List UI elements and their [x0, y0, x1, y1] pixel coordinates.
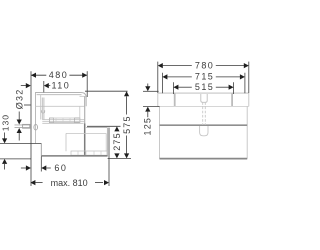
svg-text:480: 480 — [49, 70, 68, 80]
svg-text:715: 715 — [195, 72, 214, 82]
side view: pipe rosette ellipse — [34, 124, 38, 130]
dimension Ø32 leader line — [24, 104, 31, 106]
svg-text:Ø32: Ø32 — [15, 89, 25, 110]
dimension 715 right arrow — [216, 73, 245, 94]
front view: left hanger bracket — [174, 94, 176, 106]
side view: waste pipe wall flange — [23, 124, 30, 128]
dimension 780 left arrow — [158, 62, 192, 93]
dimension 515 left arrow — [173, 82, 191, 94]
front view: basin slab side edges — [158, 93, 249, 106]
side view: basin slab outline — [36, 93, 87, 125]
dimension: wall extension vertical line — [30, 71, 32, 186]
dimension max.810 right extension line — [108, 128, 110, 187]
dimension 60 left outside arrow — [21, 165, 31, 170]
dimension 575 lower arrow — [124, 136, 129, 159]
dimension 480 right arrow — [82, 73, 87, 78]
dimension 110 extension line — [43, 81, 45, 92]
dimension 125 top extension line — [143, 90, 159, 92]
dimension 575 upper arrow — [124, 91, 129, 114]
svg-text:515: 515 — [195, 82, 214, 92]
side view: cabinet front panel — [84, 96, 86, 124]
dimension max.810 right arrow — [95, 180, 109, 185]
side view: lower drawer slide strip — [71, 151, 107, 155]
side view: inner front line — [79, 106, 81, 122]
side view: cabinet top front line — [80, 95, 85, 97]
dimension Ø32 lower arrow — [17, 128, 22, 141]
dimension 480 right extension line — [86, 71, 88, 97]
side view: upper drawer bottom lines — [42, 120, 84, 122]
dimension 125 bottom extension line — [143, 106, 160, 108]
svg-text:110: 110 — [52, 81, 71, 91]
dimension 125 lower arrow — [145, 107, 150, 118]
side view: lower drawer back wall — [65, 133, 67, 151]
side view: cabinet bottom panel — [41, 155, 108, 157]
front view: cabinet bottom line — [160, 158, 248, 160]
dimension 715 left arrow — [162, 73, 191, 94]
front view: basin slab top line — [158, 92, 249, 94]
dimension 110 right outside arrow — [44, 83, 51, 88]
side view: drain standpipe — [42, 98, 44, 120]
dimension 515 right arrow — [216, 82, 234, 94]
side view: drawer divide line — [42, 122, 83, 124]
front view: right hanger bracket — [231, 94, 233, 106]
side view: open drawer side panel top line — [66, 132, 106, 134]
dimension 275 upper arrow — [114, 126, 119, 131]
dimension 480 left arrow — [31, 73, 36, 78]
front view: drain dashed pipes — [203, 102, 206, 125]
side view: upper drawer slide strip — [49, 118, 79, 123]
svg-text:max. 810: max. 810 — [51, 178, 88, 188]
svg-text:275: 275 — [112, 132, 122, 151]
front view: drawer divide line — [160, 124, 248, 126]
dimension Ø32 upper arrow — [17, 112, 22, 125]
dimension 275 lower arrow — [114, 153, 119, 158]
dimension max.810 left arrow — [30, 180, 42, 185]
dimension 125 upper arrow — [145, 84, 150, 92]
dimension 575 top extension line — [85, 90, 128, 92]
front view: drain stub — [201, 94, 207, 102]
front view: basin slab bottom line — [158, 105, 249, 107]
dimension 275 top extension line — [87, 125, 121, 127]
side view: open drawer box top — [86, 127, 107, 129]
svg-text:125: 125 — [143, 117, 153, 136]
side view: basin bowl back wall — [40, 95, 42, 120]
dimension 130 floor extension line — [0, 158, 31, 160]
svg-text:780: 780 — [195, 60, 214, 70]
front view: siphon trap cup — [200, 126, 208, 136]
dimension 60 extension line — [40, 157, 42, 172]
svg-text:60: 60 — [54, 163, 67, 173]
svg-text:575: 575 — [122, 115, 132, 134]
side view: back bottom notch — [40, 143, 42, 156]
svg-text:130: 130 — [0, 114, 10, 131]
dimension 60 right outside arrow — [41, 165, 51, 170]
front view: cabinet side edges — [160, 106, 248, 158]
dimension 130 lower arrow — [2, 159, 7, 170]
side view: cabinet back panel — [35, 124, 37, 143]
side view: waste pipe tube — [15, 125, 31, 128]
dimension 130 upper arrow — [2, 133, 7, 144]
dimension 130 notch extension line — [0, 143, 41, 145]
side view: open drawer front verticals — [106, 128, 108, 156]
dimension 480 line — [31, 74, 87, 76]
dimension bottom extension line (left view) — [108, 158, 131, 160]
dimension 780 right arrow — [216, 62, 249, 93]
dimension 110 left outside arrow — [21, 83, 31, 88]
